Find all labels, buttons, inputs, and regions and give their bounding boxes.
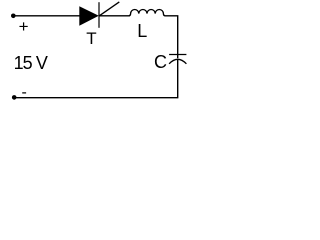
thyristor T cathode bar bbox=[98, 2, 100, 28]
capacitor C top plate bbox=[169, 54, 186, 56]
svg-text:-: - bbox=[22, 84, 27, 101]
svg-text:L: L bbox=[137, 21, 147, 41]
svg-text:+: + bbox=[19, 17, 29, 36]
capacitor C bottom curved plate bbox=[169, 59, 186, 64]
svg-text:C: C bbox=[154, 52, 167, 72]
thyristor T anode triangle bbox=[79, 6, 99, 25]
wire top-left horizontal bbox=[13, 15, 80, 17]
svg-text:T: T bbox=[86, 29, 96, 48]
svg-text:V: V bbox=[36, 53, 48, 73]
svg-text:15: 15 bbox=[14, 53, 33, 73]
wire inductor to top-right corner and down bbox=[165, 16, 178, 59]
wire capacitor to bottom-right corner and left bbox=[14, 59, 178, 97]
node positive terminal dot bbox=[11, 14, 16, 19]
wire thyristor to inductor bbox=[99, 15, 130, 17]
node negative terminal dot bbox=[12, 95, 17, 100]
thyristor T gate lead bbox=[99, 2, 119, 16]
inductor L coil bbox=[129, 10, 165, 16]
